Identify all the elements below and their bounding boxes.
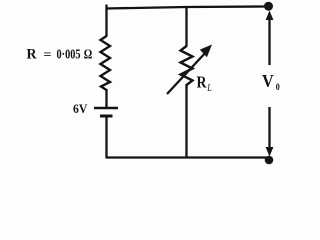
svg-text:V: V [262,71,274,91]
svg-text:0: 0 [276,82,280,92]
svg-text:R: R [197,73,208,92]
svg-text:R: R [27,46,37,62]
svg-text:L: L [207,83,212,94]
svg-text:0·005: 0·005 [57,47,81,62]
svg-text:6V: 6V [73,101,88,116]
svg-text:Ω: Ω [84,47,93,62]
svg-text:=: = [44,46,52,61]
